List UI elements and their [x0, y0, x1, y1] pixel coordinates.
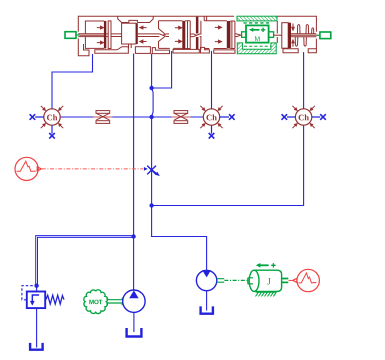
double pipe from junction (133.6,236.5) left and down to relief valve	[36, 236, 134, 286]
valve rod from D to mass M	[235, 34, 241, 37]
chamber Ch2	[200, 106, 222, 128]
wire pump P2 to tank	[206, 291, 208, 310]
prime mover MOT	[84, 290, 108, 314]
junction node at (151.6,88)	[149, 86, 153, 90]
shaft pump P2 to inertia J	[217, 279, 248, 283]
valve section D flow arrows	[215, 26, 222, 43]
valve spring piston small arrows	[292, 24, 294, 47]
valve section A flow arrows	[97, 26, 104, 44]
signal source S1 (red) with ramp waveform	[15, 157, 41, 180]
valve section A spool land (filled)	[104, 21, 106, 49]
wire from chamber Ch3 down and left to junction at (151.6,205.5)	[152, 125, 304, 205]
wire pump P1 to tank	[133, 312, 135, 331]
mass block M	[242, 25, 274, 42]
valve section D spool land (filled)	[227, 21, 231, 49]
wire from valve port 2 down to pump P1	[133, 54, 135, 290]
relief valve RV1	[22, 286, 64, 308]
mass block M top contact dashes	[244, 22, 272, 24]
mass block M contact dashes	[244, 45, 271, 47]
valve section C spool land (filled)	[182, 21, 185, 50]
valve spring coils	[291, 25, 316, 47]
mass block M friction tray (hatched U)	[237, 43, 276, 54]
valve section D second land outline	[230, 21, 235, 49]
valve section D chamber	[204, 21, 227, 49]
valve left mechanical port	[65, 32, 80, 39]
valve section C second land outline	[185, 21, 190, 50]
orifice R1	[94, 111, 113, 124]
wire from valve port 4 down and left to node at (151.6,88)	[152, 52, 172, 89]
junction node at (133.6,236.5)	[131, 234, 135, 238]
wire from valve port 6 down to chamber Ch3	[303, 53, 305, 109]
wire from valve port 1 down and left to chamber Ch1	[52, 55, 93, 109]
tank T3 below pump P2	[201, 308, 213, 314]
valve section B flow arrows (left)	[140, 26, 147, 43]
junction node at (151.6,117)	[149, 115, 153, 119]
valve section C flow arrows	[175, 26, 182, 43]
pump P2	[196, 270, 216, 290]
valve bottom feet row	[95, 47, 235, 54]
valve spring section casing	[277, 16, 316, 53]
chamber Ch3 stub wires and plugged ports	[282, 114, 326, 120]
valve rod neck between B and C	[138, 34, 169, 37]
valve section B spool land (filled)	[136, 23, 138, 44]
ground hatching under inertia J	[256, 292, 277, 296]
wire chamber row line Ch1 to Ch2	[60, 116, 203, 118]
valve section C casing	[159, 21, 183, 49]
valve section B casing with pilot cap	[118, 16, 154, 48]
shaft MOT to pump P1	[107, 298, 123, 306]
pump P1	[123, 290, 145, 312]
tank T2 below pump P1	[127, 329, 142, 336]
signal source S2 (red) with ramp waveform	[289, 269, 320, 291]
wire from valve port 5 down to chamber Ch2	[211, 52, 213, 109]
chamber Ch1	[41, 106, 63, 128]
wire from valve port 3 down through variable orifice to junctions	[152, 54, 154, 237]
variable orifice V1 with control arrow	[144, 166, 160, 177]
junction node above relief valve	[34, 284, 38, 288]
valve spring piston	[274, 23, 288, 49]
rotary load J	[248, 263, 288, 291]
valve section A second land outline	[106, 21, 121, 49]
valve section C/D partition wall (filled)	[196, 17, 199, 50]
valve section D mouth walls	[201, 16, 207, 49]
valve right mechanical port	[316, 32, 330, 39]
junction node at (151.6,205.5)	[149, 203, 153, 207]
wire from junction to pump P2	[152, 237, 207, 271]
mass block M top friction hatch strip	[237, 16, 277, 21]
chamber Ch3	[292, 106, 314, 128]
signal control line from S1 to variable orifice	[42, 168, 143, 170]
valve section A casing	[78, 16, 104, 56]
chamber Ch2 stub wires and plugged ports	[209, 114, 235, 138]
tank T1 below relief valve	[30, 344, 42, 350]
valve casing top edge	[78, 15, 234, 17]
orifice R2	[172, 111, 191, 124]
chamber Ch1 stub wires and plugged ports	[30, 114, 55, 138]
wire relief valve to tank	[36, 286, 38, 347]
valve rod neck between C and D	[190, 34, 201, 37]
